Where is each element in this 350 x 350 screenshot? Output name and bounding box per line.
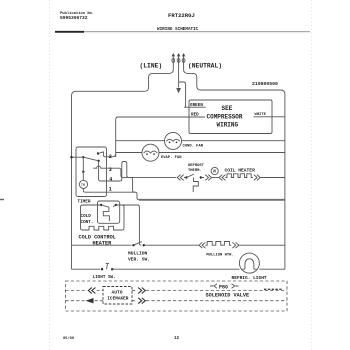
svg-text:RED: RED (191, 112, 199, 117)
svg-text:SOLENOID VALVE: SOLENOID VALVE (206, 293, 250, 299)
connector circle H (211, 167, 218, 174)
connector chevrons after coil heater (254, 175, 260, 181)
svg-text:3: 3 (109, 167, 112, 173)
wire white to right bus (254, 116, 285, 118)
connector chevrons icemaker upper right (138, 288, 145, 294)
connector chevrons before defrost thermostat (177, 175, 183, 181)
svg-text:EVAP. FAN: EVAP. FAN (161, 156, 182, 160)
arrow connector lower left (86, 298, 94, 303)
node red rail from timer feed (116, 117, 205, 157)
connector chevrons icemaker lower right (138, 298, 145, 304)
svg-text:FRT22RGJ: FRT22RGJ (168, 12, 195, 19)
svg-text:TM: TM (81, 184, 85, 188)
timer switch blade (83, 157, 98, 161)
svg-text:TIMER: TIMER (78, 200, 91, 205)
svg-text:COND. FAN: COND. FAN (183, 145, 204, 149)
svg-text:(LINE): (LINE) (140, 62, 163, 69)
cold control blade (101, 205, 116, 207)
green wire branch (179, 82, 186, 107)
icemaker harness wire lower left (66, 300, 85, 302)
icemaker dashed to right edge (146, 300, 287, 302)
refrigerator light lamp (239, 253, 259, 273)
solenoid coil dashes (264, 288, 282, 290)
svg-text:THERM.: THERM. (188, 169, 202, 173)
wire timer common to left bus (72, 156, 84, 158)
connector P80 (210, 284, 239, 291)
svg-text:05/00: 05/00 (63, 336, 74, 341)
icemaker harness wire upper right (132, 290, 136, 292)
timer contact lead pin2 (98, 152, 106, 157)
wire to coil heater (212, 177, 219, 179)
svg-text:P80: P80 (219, 284, 228, 290)
cold control contacts (100, 204, 102, 206)
timer motor TM (79, 180, 87, 188)
wire coil heater to right bus (260, 177, 285, 179)
timer node motor tap (82, 171, 84, 173)
mullion door switch (132, 244, 134, 246)
connector chevrons before mullion heater (199, 242, 205, 248)
timer contact pin2 (97, 152, 99, 154)
compressor wiring box U1 (189, 100, 272, 134)
wire mullion heater to right bus (239, 244, 285, 246)
wire lamp to right bus (259, 268, 285, 270)
svg-text:(NEUTRAL): (NEUTRAL) (188, 62, 222, 69)
svg-text:12: 12 (174, 337, 180, 341)
svg-text:2: 2 (109, 154, 112, 160)
plug prong neutral (182, 53, 185, 63)
connector chevrons before coil heater (219, 175, 225, 181)
icemaker dashed enclosure (66, 281, 288, 311)
timer contact pin3 (97, 160, 99, 162)
motor evaporator fan (142, 144, 159, 161)
connector chevrons after defrost thermostat (205, 175, 211, 181)
timer pin 3 stub (106, 168, 135, 192)
wire mullion switch to heater (144, 244, 199, 246)
defrost timer box (76, 147, 107, 197)
svg-text:COIL HEATER: COIL HEATER (225, 167, 256, 173)
junction dot on left bus (70, 156, 72, 158)
timer wire common down to motor (82, 157, 84, 180)
svg-text:COLD: COLD (81, 214, 92, 219)
svg-text:SEE: SEE (222, 105, 233, 112)
wire cold control to mullion rail (116, 205, 142, 245)
connector chevrons after mullion heater (232, 242, 238, 248)
icemaker harness wire upper left (66, 290, 87, 292)
svg-text:LIGHT SW.: LIGHT SW. (93, 275, 116, 280)
defrost thermostat bimetal (193, 178, 198, 193)
registration tick left edge (0, 199, 4, 201)
svg-text:WIRING: WIRING (217, 122, 239, 129)
timer pin 1 wire to bottom rail (106, 192, 139, 200)
svg-text:HEATER: HEATER (93, 241, 113, 247)
svg-text:4: 4 (109, 177, 112, 183)
timer pin 4 stub (106, 162, 127, 182)
timer pin3 wire inside with hop (93, 166, 106, 168)
mullion heater element (205, 242, 231, 246)
ground stub with arrow (178, 63, 180, 88)
plug prong line (172, 53, 175, 63)
page perforation left edge (49, 0, 51, 350)
svg-text:GREEN: GREEN (190, 103, 203, 108)
plug prong ground (177, 53, 180, 63)
svg-text:WIRING SCHEMATIC: WIRING SCHEMATIC (157, 27, 199, 32)
svg-text:COLD CONTROL: COLD CONTROL (79, 234, 116, 240)
light switch (101, 268, 103, 270)
cold control box (98, 201, 120, 223)
heater coil element (225, 174, 252, 178)
svg-text:COMPRESSOR: COMPRESSOR (207, 113, 243, 120)
icemaker harness wire lower right (132, 300, 136, 302)
motor condenser fan (165, 132, 182, 149)
wire neutral to right bus (184, 63, 285, 269)
icemaker harness dashed to solenoid (146, 290, 287, 292)
wire evaporator fan row (116, 152, 285, 154)
defrost thermostat switch (185, 176, 187, 178)
connector chevrons icemaker upper left (88, 288, 95, 294)
cold control heater element (88, 226, 116, 230)
wire line to left bus (72, 63, 174, 269)
svg-text:AUTO: AUTO (112, 289, 123, 295)
icemaker wire lower to box (95, 300, 104, 302)
wire light switch to lamp (112, 268, 239, 270)
timer wire motor to pin1 (83, 189, 106, 193)
icemaker harness wire to box upper (97, 290, 104, 292)
mullion rail (72, 244, 132, 246)
svg-text:5995306732: 5995306732 (60, 15, 88, 21)
timer pin 2 stub (106, 154, 115, 157)
bottom feed rail (139, 199, 285, 201)
svg-text:MULLION HTR.: MULLION HTR. (206, 254, 233, 258)
timer common node (82, 156, 84, 158)
wire heater right side up (115, 205, 124, 230)
header rule (55, 31, 84, 33)
svg-text:1: 1 (109, 187, 112, 193)
cold control bellows (103, 207, 109, 221)
svg-text:MULLION: MULLION (128, 250, 148, 256)
light rail (72, 268, 101, 270)
timer wire contact3 down (99, 161, 107, 181)
svg-text:ICEMAKER: ICEMAKER (107, 296, 128, 301)
wire condenser fan row (116, 140, 285, 142)
svg-text:219800500: 219800500 (252, 81, 278, 87)
wire defrost row from timer feed (127, 175, 176, 177)
svg-text:VER. SW.: VER. SW. (128, 256, 150, 262)
auto icemaker box (103, 287, 132, 305)
svg-text:REFRIG. LIGHT: REFRIG. LIGHT (232, 275, 267, 281)
svg-text:CONT.: CONT. (81, 220, 94, 225)
svg-text:DEFROST: DEFROST (188, 164, 205, 168)
page perforation right edge (311, 0, 313, 350)
wire cold control left to heater (81, 205, 102, 230)
